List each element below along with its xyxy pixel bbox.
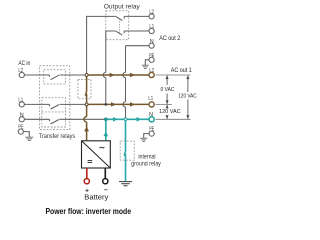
- ground symbol (AC out2 PE): [142, 65, 149, 68]
- svg-text:L1: L1: [148, 96, 153, 102]
- transfer relays outer dashed box: [40, 66, 70, 130]
- wire pole2 out to AC out2 L1: [124, 30, 149, 32]
- terminal AC out1 L2: [149, 72, 154, 77]
- transfer relay contact L1 (open): [49, 104, 59, 109]
- wire AC out2 PE to ground: [145, 60, 149, 65]
- terminal AC out2 L2: [149, 14, 154, 19]
- terminal AC out2 N: [149, 43, 154, 48]
- svg-text:−: −: [104, 187, 108, 194]
- wire N out (teal) node C to AC out1 N: [106, 118, 149, 120]
- flow arrow L2 b: [130, 73, 135, 78]
- wire AC out1 PE to ground: [144, 134, 149, 139]
- dimension L1-N (120 VAC): [166, 105, 168, 119]
- flow arrow N b: [137, 117, 142, 122]
- svg-text:N: N: [20, 112, 24, 118]
- battery positive terminal: [84, 179, 89, 184]
- transfer relay inner box pole L2: [44, 70, 66, 84]
- transfer relay contact N (open): [49, 119, 59, 124]
- wire AC in N to transfer relay: [24, 118, 49, 120]
- flow arrow L2 a: [110, 73, 115, 78]
- wire AC in L1 to transfer relay: [24, 103, 49, 105]
- svg-text:Transfer relays: Transfer relays: [39, 133, 75, 140]
- terminal AC out2 L1: [149, 28, 154, 33]
- relay mechanical link: [119, 19, 121, 33]
- flow arrow up (inverter N out): [103, 131, 108, 136]
- svg-text:N: N: [149, 112, 153, 118]
- node D junction (pole2 tap on L1): [105, 103, 108, 106]
- wire transfer relay N out to node C: [60, 118, 106, 120]
- extension line N: [156, 118, 191, 120]
- svg-text:N: N: [150, 39, 154, 45]
- dimension L2-N (120 VAC): [187, 75, 189, 119]
- brown riser from inverter to node B: [86, 104, 88, 140]
- hop of N riser over L2 line: [123, 72, 126, 77]
- svg-text:120 VAC: 120 VAC: [159, 109, 181, 115]
- transfer relay inner box poles L1+N: [42, 98, 66, 127]
- terminal AC in N: [19, 117, 24, 122]
- extension line L2: [156, 74, 191, 76]
- teal drop from node E through ground relay: [124, 119, 125, 181]
- svg-text:Battery: Battery: [84, 195, 109, 202]
- svg-text:120 VAC: 120 VAC: [178, 93, 196, 99]
- terminal AC out2 PE: [149, 57, 154, 62]
- node B junction: [85, 103, 88, 106]
- svg-text:+: +: [85, 187, 89, 194]
- output relay contact pole2 (open): [116, 31, 124, 35]
- wire L2 out (live) node A to AC out1 L2: [87, 74, 149, 76]
- svg-text:internal: internal: [138, 154, 155, 160]
- terminal AC out1 L1: [149, 102, 154, 107]
- svg-text:ground relay: ground relay: [131, 162, 161, 168]
- inverter AC symbol: [100, 147, 105, 148]
- hop of N riser over L1 line: [123, 102, 126, 107]
- hop of pole2 wire over L2 line: [103, 72, 106, 77]
- svg-text:AC out 1: AC out 1: [171, 67, 192, 74]
- extension line L1: [156, 103, 172, 105]
- wire AC out2 N: from vertical riser to terminal: [126, 46, 150, 120]
- svg-text:AC in: AC in: [18, 60, 30, 67]
- svg-text:L2: L2: [18, 68, 23, 74]
- terminal AC out1 N: [149, 117, 154, 122]
- wire AC in L2 to transfer relay: [24, 74, 49, 76]
- wire pole1 left: from node V1 top to relay box: [87, 16, 116, 75]
- transfer relay inner divider: [42, 111, 66, 113]
- output relay contact pole1 (open): [116, 16, 124, 20]
- wire transfer relay L2 out to node A: [60, 74, 87, 76]
- wire pole1 out to AC out2 L2: [124, 15, 149, 17]
- svg-text:0 VAC: 0 VAC: [161, 87, 175, 93]
- node C junction (inverter N tap): [104, 118, 107, 121]
- svg-text:L1: L1: [149, 24, 154, 30]
- flow arrow L1 b: [130, 102, 135, 107]
- svg-text:L1: L1: [18, 97, 23, 103]
- battery negative wire: [104, 168, 106, 178]
- node A junction: [85, 74, 88, 77]
- flow arrow L1 a: [111, 102, 116, 107]
- hop of brown riser over N line: [84, 117, 87, 122]
- ground symbol (internal, large): [119, 182, 132, 186]
- inverter diagonal: [82, 141, 111, 168]
- dimension L2-L1 (0 VAC): [166, 75, 168, 104]
- wire transfer relay L1 out to node B: [60, 103, 87, 105]
- output relay K2 dashed box: [106, 11, 129, 40]
- inverter DC symbol: [88, 161, 93, 163]
- svg-text:Power flow: inverter mode: Power flow: inverter mode: [46, 207, 132, 216]
- terminal AC in L2: [19, 72, 24, 77]
- wire L1 out (live) node B to AC out1 L1: [87, 103, 149, 105]
- svg-text:L2: L2: [149, 10, 154, 16]
- transfer relay contact L2 (open): [49, 75, 59, 80]
- wire AC in PE to ground: [23, 132, 29, 138]
- svg-text:PE: PE: [18, 125, 23, 131]
- flow arrow N a: [113, 117, 118, 122]
- battery negative terminal: [103, 179, 108, 184]
- teal riser from inverter N to node C: [105, 119, 107, 140]
- terminal AC out1 PE: [149, 131, 154, 136]
- node E junction (ground relay tap): [124, 118, 127, 121]
- ground symbol (AC in PE): [25, 137, 33, 140]
- bridge relay contact (closed) on brown riser: [85, 75, 86, 104]
- svg-text:Output relay: Output relay: [104, 4, 141, 11]
- flow arrow up (inverter L out): [84, 126, 89, 131]
- svg-text:PE: PE: [149, 53, 154, 59]
- wire pole2 left: down to node on L1 line: [106, 31, 116, 104]
- svg-text:AC out 2: AC out 2: [159, 35, 180, 42]
- inverter U1 box: [82, 141, 111, 168]
- terminal AC in L1: [19, 102, 24, 107]
- svg-text:L2: L2: [149, 68, 154, 74]
- svg-text:PE: PE: [149, 127, 154, 133]
- ground symbol (AC out1 PE): [140, 138, 147, 141]
- internal ground relay dashed box: [120, 141, 134, 160]
- battery positive wire: [86, 168, 88, 178]
- terminal AC in PE: [18, 129, 23, 134]
- bridge relay dashed box: [78, 79, 91, 98]
